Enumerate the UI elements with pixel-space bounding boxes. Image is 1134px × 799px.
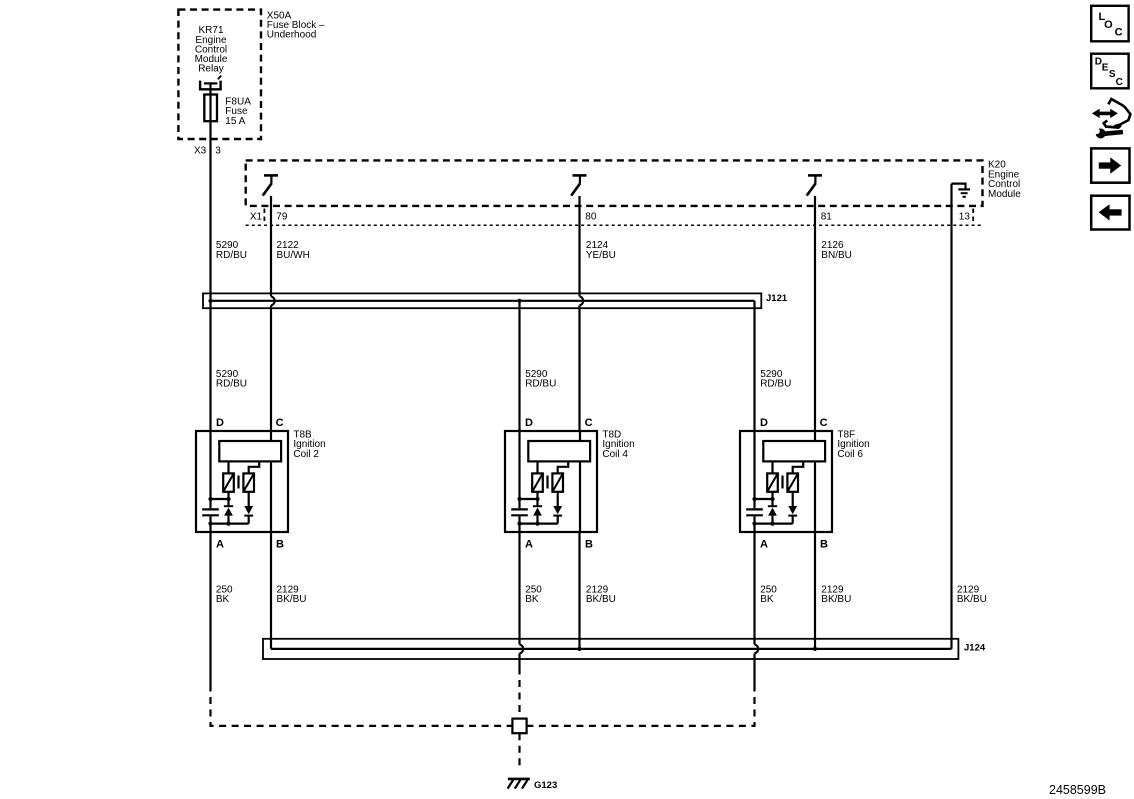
label 2129 BK/BU (coil 4) [586, 584, 616, 605]
T8B internal rail (top) [211, 498, 229, 500]
junction dots inside T8F [752, 497, 774, 526]
wire 5290 RD/BU (J121 to coil 6 terminal D) [753, 301, 755, 431]
junction dot (J121 / wire 5290 coil 4) [517, 299, 521, 303]
svg-text:B: B [276, 539, 284, 551]
splice pack J121 housing [203, 293, 761, 308]
label 250 BK (coil 6) [760, 584, 777, 605]
svg-text:J124: J124 [964, 643, 986, 654]
svg-text:A: A [216, 539, 224, 551]
ECM connector edge (dotted) [246, 224, 983, 226]
label T8B Ignition Coil 2 [293, 429, 325, 460]
icon: component view (arrows and wrench) [1092, 99, 1131, 139]
label K20 Engine Control Module [988, 160, 1021, 200]
label 5290 RD/BU (coil 2 branch) [216, 369, 247, 390]
label 5290 RD/BU (coil 6 branch) [760, 369, 791, 390]
T8B core separator [237, 476, 239, 489]
T8D secondary winding [552, 461, 568, 491]
T8F diode (down) [788, 492, 797, 524]
label connector X3 pin 3 [194, 146, 221, 157]
junction dot (J121 / wire 5290 coil 2) [208, 299, 212, 303]
svg-text:C: C [1115, 27, 1123, 39]
wire 2129 BK/BU (coil 6 terminal B to splice J124) [814, 532, 816, 649]
relay KR71 contact symbol [199, 76, 222, 95]
label 2122 BU/WH [277, 240, 310, 261]
junction dots inside T8B [208, 497, 230, 526]
svg-text:RD/BU: RD/BU [216, 250, 247, 261]
svg-text:BK/BU: BK/BU [586, 594, 616, 605]
junction dots inside T8D [517, 497, 539, 526]
svg-text:RD/BU: RD/BU [760, 379, 791, 390]
svg-text:A: A [760, 539, 768, 551]
icon: LOC button [1091, 6, 1128, 42]
T8F core separator [781, 476, 783, 489]
relay KR71 label [195, 25, 228, 74]
T8F internal rail (top) [755, 498, 773, 500]
label 5290 RD/BU (coil 4 branch) [525, 369, 556, 390]
svg-text:O: O [1104, 19, 1113, 31]
ground splice junction box [512, 719, 526, 734]
svg-text:E: E [1102, 63, 1109, 74]
ECM driver switch (pin 81) [807, 175, 822, 195]
ECM internal ground symbol (pin 13) [952, 184, 971, 197]
svg-text:C: C [820, 417, 828, 429]
T8F secondary winding [787, 461, 803, 491]
label 250 BK (coil 2) [216, 584, 233, 605]
junction dot (J124 / coil 6 B) [813, 647, 817, 651]
ground lead (splice to G123) [518, 733, 520, 767]
svg-text:D: D [525, 417, 533, 429]
ground G123 symbol [508, 779, 530, 789]
label 250 BK (coil 4) [525, 584, 542, 605]
svg-text:Underhood: Underhood [267, 30, 316, 41]
T8D internal rail (top) [520, 498, 538, 500]
T8F internal rail (bottom) [755, 522, 793, 524]
T8D terminal C lead [579, 431, 581, 532]
wire 2124 YE/BU (pin 80 to coil 4 terminal C, hops J121) [580, 196, 584, 431]
wire 2122 BU/WH (pin 79 to coil 2 terminal C, hops J121) [271, 196, 275, 431]
svg-text:Relay: Relay [198, 64, 224, 75]
svg-text:YE/BU: YE/BU [586, 250, 616, 261]
label 2129 BK/BU (right) [957, 584, 987, 605]
splice J121 bus wire [211, 300, 755, 302]
svg-text:D: D [216, 417, 224, 429]
T8D core separator [546, 476, 548, 489]
svg-text:RD/BU: RD/BU [216, 379, 247, 390]
svg-text:Coil 6: Coil 6 [837, 449, 863, 460]
label 5290 RD/BU (upper) [216, 240, 247, 261]
svg-text:RD/BU: RD/BU [525, 379, 556, 390]
T8B internal rail (bottom) [211, 522, 249, 524]
wire 250 BK (coil 6 terminal A, hops J124, to ground splice) [527, 532, 759, 726]
icon: back arrow button [1091, 196, 1129, 230]
wire 2129 BK/BU (coil 4 terminal B to splice J124) [578, 532, 580, 649]
svg-text:B: B [585, 539, 593, 551]
svg-text:80: 80 [585, 212, 597, 223]
T8F terminal D lead [753, 431, 755, 508]
svg-text:G123: G123 [534, 780, 557, 791]
T8D diode (up) [533, 499, 542, 524]
T8B diode (up) [224, 499, 233, 524]
svg-text:Module: Module [988, 189, 1021, 200]
svg-text:B: B [820, 539, 828, 551]
wire 2129 BK/BU (ECM pin 13 ground to splice J124) [950, 184, 952, 649]
wire 250 BK (coil 2 terminal A, to ground splice) [211, 532, 513, 726]
T8F diode (up) [768, 499, 777, 524]
label X50A Fuse Block Underhood [267, 10, 325, 40]
icon: DESC button [1091, 54, 1128, 89]
svg-text:BK: BK [760, 594, 774, 605]
svg-text:A: A [525, 539, 533, 551]
splice J124 bus wire [271, 648, 952, 650]
T8B capacitor [202, 509, 219, 532]
T8B secondary winding [243, 461, 259, 491]
svg-text:81: 81 [821, 212, 833, 223]
label 2129 BK/BU (coil 2) [277, 584, 307, 605]
svg-text:C: C [276, 417, 284, 429]
wire 5290 RD/BU (fuse to coil 2 terminal D, through splice J121) [209, 121, 211, 431]
svg-text:X3: X3 [194, 146, 207, 157]
ECM driver switch (pin 79) [263, 175, 278, 195]
svg-text:BK: BK [525, 594, 539, 605]
svg-text:D: D [760, 417, 768, 429]
T8D connector block [528, 441, 590, 461]
svg-text:C: C [1116, 77, 1123, 88]
label F8UA Fuse 15 A [225, 97, 251, 127]
svg-text:BN/BU: BN/BU [821, 250, 852, 261]
ECM driver switch (pin 80) [571, 175, 586, 195]
T8B terminal C lead [270, 431, 272, 532]
ignition coil T8D box [505, 431, 597, 532]
svg-text:Coil 4: Coil 4 [602, 449, 628, 460]
wire 2129 BK/BU (coil 2 terminal B to splice J124) [270, 532, 272, 649]
label T8D Ignition Coil 4 [602, 429, 634, 460]
T8B terminal D lead [209, 431, 211, 508]
ignition coil T8B box [196, 431, 288, 532]
wire 250 BK (coil 4 terminal A, hops J124, to ground splice) [520, 532, 524, 719]
svg-text:J121: J121 [766, 293, 788, 304]
T8B primary winding [223, 461, 234, 499]
T8B connector block [219, 441, 281, 461]
svg-text:Coil 2: Coil 2 [293, 449, 319, 460]
svg-text:BK/BU: BK/BU [821, 594, 851, 605]
connector bracket (left) [263, 209, 265, 225]
T8D internal rail (bottom) [520, 522, 558, 524]
svg-text:15 A: 15 A [225, 116, 245, 127]
fuse block X50A dashed box [178, 10, 261, 139]
T8D terminal D lead [518, 431, 520, 508]
T8F connector block [763, 441, 825, 461]
label T8F Ignition Coil 6 [837, 429, 869, 460]
fuse F8UA 15A [204, 95, 217, 122]
svg-text:3: 3 [215, 146, 221, 157]
T8F terminal C lead [814, 431, 816, 532]
T8D capacitor [511, 509, 528, 532]
wire 5290 RD/BU (J121 to coil 4 terminal D) [518, 301, 520, 431]
svg-text:BK: BK [216, 594, 230, 605]
svg-text:BU/WH: BU/WH [277, 250, 310, 261]
svg-text:BK/BU: BK/BU [957, 594, 987, 605]
T8D primary winding [532, 461, 543, 499]
svg-text:BK/BU: BK/BU [277, 594, 307, 605]
ignition coil T8F box [740, 431, 832, 532]
connector bracket (right) [972, 209, 974, 225]
icon: next arrow button [1091, 148, 1129, 182]
junction dot (J124 / coil 4 B) [577, 647, 581, 651]
splice pack J124 housing [263, 639, 958, 659]
ECM K20 dashed box [246, 160, 983, 206]
svg-text:79: 79 [276, 212, 288, 223]
T8F capacitor [746, 509, 763, 532]
T8D diode (down) [553, 492, 562, 524]
label 2129 BK/BU (coil 6) [821, 584, 851, 605]
label 2124 YE/BU [586, 240, 616, 261]
svg-text:C: C [585, 417, 593, 429]
wire 2126 BN/BU (pin 81 to coil 6 terminal C) [814, 196, 816, 431]
svg-text:13: 13 [959, 212, 971, 223]
svg-text:X1: X1 [250, 212, 263, 223]
label 2126 BN/BU [821, 240, 852, 261]
svg-text:2458599B: 2458599B [1049, 783, 1106, 797]
T8B diode (down) [244, 492, 253, 524]
T8F primary winding [767, 461, 778, 499]
